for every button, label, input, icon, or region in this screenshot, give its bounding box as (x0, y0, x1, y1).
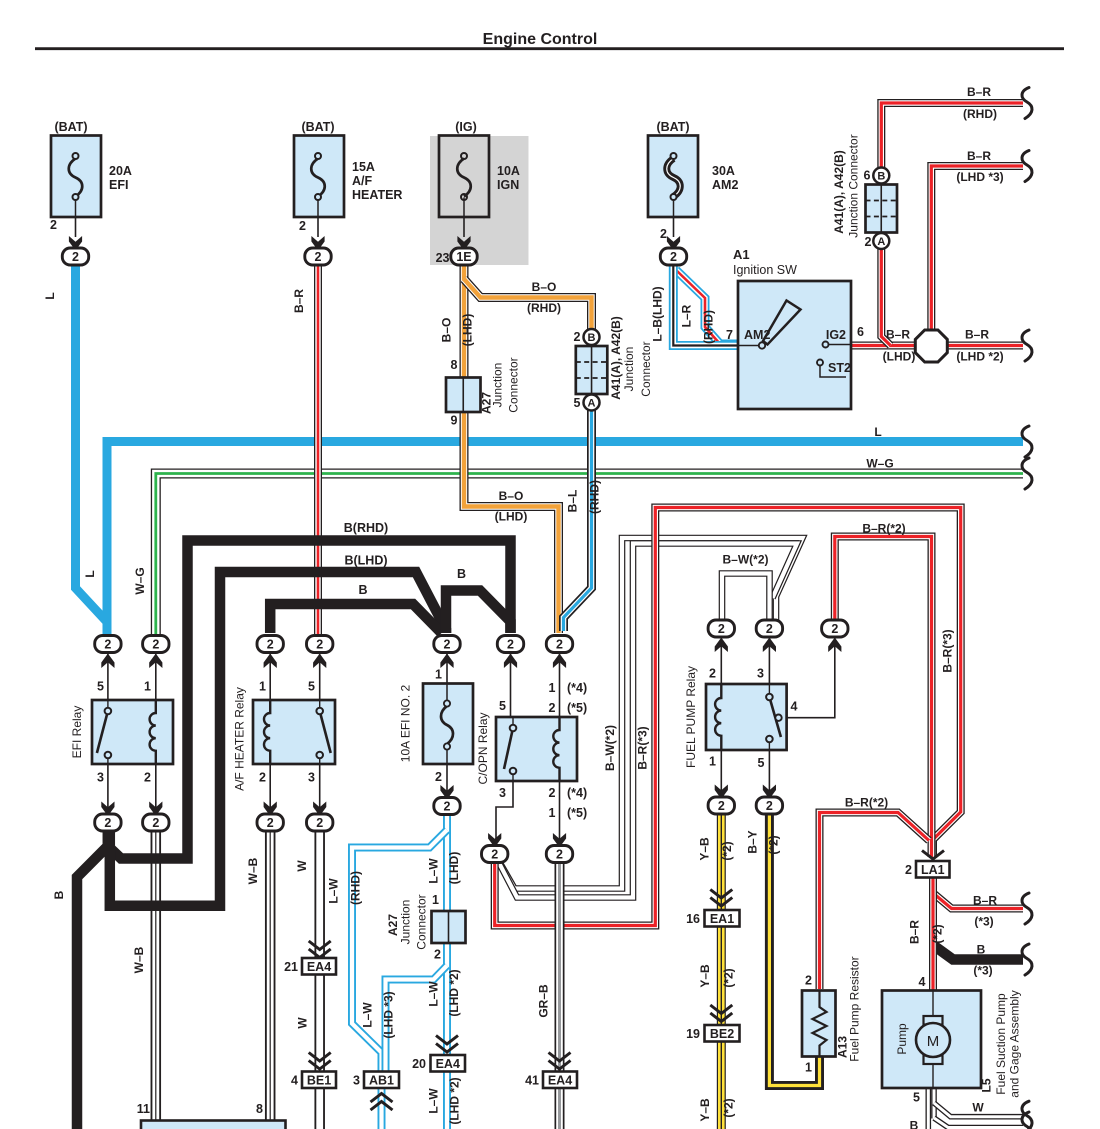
svg-text:2: 2 (152, 816, 159, 830)
svg-text:B: B (877, 171, 885, 183)
connector box EA4 pin20 (436, 1036, 458, 1045)
svg-text:2: 2 (315, 250, 322, 264)
svg-text:(LHD): (LHD) (461, 314, 475, 347)
svg-text:HEATER: HEATER (352, 188, 402, 202)
svg-text:2: 2 (831, 622, 838, 636)
svg-text:Fuel Suction Pump: Fuel Suction Pump (994, 993, 1008, 1095)
svg-text:(*2): (*2) (720, 841, 734, 860)
svg-text:GR–B: GR–B (537, 984, 551, 1018)
wire bottom partial to right break (934, 1118, 1023, 1128)
wire B-W(*2) white link loop between fuel pump relay pins 2 and 3 (722, 574, 770, 635)
svg-text:EA4: EA4 (436, 1057, 460, 1071)
svg-text:6: 6 (864, 169, 871, 183)
svg-text:B–R: B–R (292, 289, 306, 313)
svg-text:2: 2 (299, 219, 306, 233)
svg-text:2: 2 (556, 637, 563, 651)
svg-text:(RHD): (RHD) (588, 480, 602, 514)
svg-text:EFI Relay: EFI Relay (70, 706, 84, 759)
svg-text:2: 2 (491, 847, 498, 861)
wire B-R(*2) red branch from LA1 merge down-left to fuel pump resistor pin2 (820, 813, 930, 990)
svg-text:2: 2 (104, 816, 111, 830)
svg-text:2: 2 (104, 637, 111, 651)
pin line C/OPN relay pin3 jog (496, 781, 513, 840)
wire L-W (RHD) branch down to AB1 (352, 830, 447, 1071)
svg-text:W–B: W–B (246, 857, 260, 884)
wire B-L (RHD) from junction connector A down to C/OPN coil (564, 409, 592, 631)
svg-text:2: 2 (507, 637, 514, 651)
svg-text:B–R(*2): B–R(*2) (862, 522, 905, 536)
svg-text:B–L: B–L (566, 490, 580, 513)
fuse 10A EFI NO.2 box (423, 684, 473, 765)
svg-text:Y–B: Y–B (698, 837, 712, 861)
svg-text:BE2: BE2 (710, 1027, 734, 1041)
svg-text:4: 4 (291, 1073, 298, 1087)
svg-text:1: 1 (549, 806, 556, 820)
pin lines fuel pump relay bottom (720, 750, 722, 791)
svg-text:(LHD *3): (LHD *3) (956, 170, 1003, 184)
svg-text:2: 2 (718, 799, 725, 813)
svg-text:2: 2 (259, 771, 266, 785)
wire B-R(*3) red: C/OPN pin3 loop over to LA1 (495, 508, 961, 926)
svg-text:L5: L5 (980, 1078, 994, 1092)
fuel pump resistor A13 box (802, 991, 836, 1057)
svg-text:L–W: L–W (427, 1088, 441, 1114)
svg-text:7: 7 (726, 328, 733, 342)
wire B-O (LHD) from 1E fuse output down, across to C/OPN coil (464, 262, 559, 633)
svg-text:Ignition SW: Ignition SW (733, 263, 797, 277)
svg-text:(LHD *2): (LHD *2) (447, 969, 461, 1016)
svg-text:41: 41 (525, 1073, 539, 1087)
svg-text:2: 2 (556, 847, 563, 861)
svg-text:(LHD *3): (LHD *3) (382, 991, 396, 1038)
svg-text:B: B (52, 890, 66, 899)
bottom left connector box (141, 1121, 286, 1129)
svg-text:A: A (588, 398, 596, 410)
wire B-R from fuse 15A A/F HEATER down to A/F relay row (314, 262, 322, 634)
svg-text:(RHD): (RHD) (963, 107, 997, 121)
svg-text:Y–B: Y–B (698, 964, 712, 988)
svg-text:2: 2 (549, 701, 556, 715)
connector box EA4 pin41 (549, 1053, 571, 1062)
C/OPN Relay box (496, 717, 577, 781)
svg-text:10A: 10A (497, 164, 520, 178)
svg-text:9: 9 (451, 414, 458, 428)
svg-text:(RHD): (RHD) (702, 310, 716, 344)
wire B-R (RHD) up from junction connector B to top right break (881, 103, 1023, 168)
wire Y-B from fuel pump relay pin1 down through EA1/BE2 (717, 811, 726, 1129)
wire B thick black to bottom left (ground) (77, 828, 108, 1129)
svg-text:Fuel Pump Resistor: Fuel Pump Resistor (848, 956, 862, 1061)
svg-text:1: 1 (435, 668, 442, 682)
svg-text:BE1: BE1 (307, 1073, 331, 1087)
svg-text:2: 2 (267, 816, 274, 830)
svg-text:and Gage Assembly: and Gage Assembly (1008, 990, 1022, 1097)
svg-text:(RHD): (RHD) (349, 871, 363, 905)
svg-text:5: 5 (499, 699, 506, 713)
svg-text:3: 3 (353, 1073, 360, 1087)
junction connector A27 lower (432, 911, 466, 943)
svg-text:(*2): (*2) (722, 968, 736, 987)
svg-text:L–W: L–W (327, 878, 341, 904)
FUEL PUMP Relay box (706, 684, 787, 750)
svg-text:20A: 20A (109, 164, 132, 178)
svg-text:1: 1 (259, 680, 266, 694)
wire B-R ignition SW IG2 pin6 to octagon junction (851, 342, 931, 350)
octagon junction (915, 330, 947, 362)
svg-text:Y–B: Y–B (698, 1098, 712, 1122)
svg-text:L: L (83, 570, 97, 577)
svg-text:B: B (977, 943, 986, 957)
svg-text:Connector: Connector (507, 357, 521, 412)
svg-text:4: 4 (791, 700, 798, 714)
wire B-O (RHD) branch to junction connector B (464, 279, 592, 330)
ignition switch ST2 contact (817, 360, 823, 366)
svg-text:2: 2 (660, 227, 667, 241)
svg-text:2: 2 (718, 622, 725, 636)
svg-text:L–W: L–W (427, 858, 441, 884)
pin line fuel pump relay pin4 to B-R(*2) (787, 638, 835, 718)
A/F HEATER Relay box (253, 700, 335, 764)
pin lines relay row top (into ellipses y644) (107, 653, 109, 700)
svg-text:B–O: B–O (532, 280, 557, 294)
svg-text:B–O: B–O (499, 489, 524, 503)
svg-text:L–W: L–W (361, 1002, 375, 1028)
wire W branch from fuel pump bottom to right break (934, 1103, 1023, 1117)
svg-text:B: B (588, 332, 596, 344)
svg-text:16: 16 (686, 912, 700, 926)
connector box EA1 pin16 (710, 890, 732, 899)
svg-text:1E: 1E (456, 250, 471, 264)
wire B-R(*2) red: fuel pump relay pin4 loop to LA1 (835, 537, 932, 858)
wire B-R(*2) from LA1 down into fuel pump (929, 877, 937, 992)
svg-text:EA4: EA4 (548, 1073, 572, 1087)
wire B-Y from fuel pump relay pin5 to fuel pump resistor pin1 (769, 811, 819, 1086)
svg-text:B–W(*2): B–W(*2) (603, 725, 617, 771)
svg-text:2: 2 (316, 816, 323, 830)
wire GR-B from C/OPN coil down to EA4 pin41 and bottom (555, 858, 565, 1129)
svg-text:3: 3 (499, 786, 506, 800)
wire W white pair below fuel pump L5 (925, 1088, 931, 1129)
svg-text:(*2): (*2) (722, 1098, 736, 1117)
svg-text:1: 1 (432, 893, 439, 907)
svg-text:8: 8 (451, 358, 458, 372)
svg-text:A: A (877, 236, 885, 248)
svg-text:L–R: L–R (680, 304, 694, 327)
svg-text:(*4): (*4) (567, 681, 587, 695)
svg-text:5: 5 (97, 680, 104, 694)
svg-text:5: 5 (308, 680, 315, 694)
svg-text:W–B: W–B (132, 946, 146, 973)
svg-text:EA1: EA1 (710, 912, 734, 926)
svg-text:A41(A), A42(B): A41(A), A42(B) (609, 316, 623, 400)
wire W-B from A/F relay pin2 down to bottom connector pin 8 (265, 828, 276, 1121)
svg-text:B–R: B–R (967, 149, 991, 163)
relay row connector ellipses y=644 with arrows (101, 654, 114, 669)
wire L-W (LHD *3) branch below A27 to AB1 (386, 966, 448, 1072)
svg-text:2: 2 (574, 330, 581, 344)
svg-text:B(LHD): B(LHD) (344, 554, 387, 568)
wire B thick black: n-link between EFI NO.2 and C/OPN pin5 (446, 591, 511, 634)
svg-text:A/F HEATER Relay: A/F HEATER Relay (233, 687, 247, 791)
fuse 30A AM2 (648, 136, 698, 218)
svg-text:2: 2 (865, 235, 872, 249)
svg-text:L: L (874, 425, 881, 439)
svg-text:W: W (295, 860, 309, 872)
connector ellipses below fuses (62, 248, 88, 265)
pin lines from fuses to connectors (75, 217, 77, 237)
wire B-R(*3) branch right break (933, 893, 1023, 909)
svg-text:2: 2 (72, 250, 79, 264)
wire B-R (LHD *2) octagon to right break (931, 342, 1023, 350)
svg-text:A1: A1 (733, 247, 750, 262)
svg-text:5: 5 (574, 396, 581, 410)
svg-text:L: L (43, 292, 57, 299)
svg-text:Pump: Pump (895, 1023, 909, 1055)
svg-text:6: 6 (857, 325, 864, 339)
fuel suction pump L5 box with motor (882, 991, 981, 1089)
svg-text:1: 1 (144, 680, 151, 694)
svg-text:Connector: Connector (639, 341, 653, 396)
svg-text:4: 4 (919, 975, 926, 989)
svg-text:(*5): (*5) (567, 806, 587, 820)
svg-text:M: M (927, 1033, 940, 1050)
svg-text:11: 11 (137, 1102, 150, 1116)
svg-text:W: W (296, 1017, 310, 1029)
svg-text:Junction Connector: Junction Connector (847, 134, 861, 237)
svg-text:2: 2 (670, 250, 677, 264)
svg-text:(*4): (*4) (567, 786, 587, 800)
svg-text:LA1: LA1 (921, 863, 945, 877)
svg-text:(LHD): (LHD) (883, 350, 916, 364)
svg-text:2: 2 (434, 948, 441, 962)
svg-text:(BAT): (BAT) (656, 120, 689, 134)
svg-text:10A EFI NO. 2: 10A EFI NO. 2 (399, 684, 413, 762)
pin lines fuel pump relay top (720, 638, 722, 684)
svg-text:(LHD): (LHD) (447, 852, 461, 885)
connector box BE2 pin19 (710, 1005, 732, 1014)
svg-text:B–W(*2): B–W(*2) (722, 553, 768, 567)
svg-text:IG2: IG2 (826, 328, 846, 342)
svg-text:B–R(*3): B–R(*3) (941, 629, 955, 672)
svg-text:2: 2 (709, 667, 716, 681)
svg-text:(*3): (*3) (973, 964, 992, 978)
svg-text:2: 2 (549, 786, 556, 800)
wire W from A/F relay pin3 down through EA4/BE1 (314, 828, 325, 1129)
wire L (blue) from fuse 20A EFI down-left vertical with jog (76, 262, 108, 632)
svg-text:Engine Control: Engine Control (483, 31, 598, 48)
svg-text:Junction: Junction (622, 347, 636, 392)
svg-text:(*5): (*5) (567, 701, 587, 715)
svg-text:B–R: B–R (908, 920, 922, 944)
junction connector A27 upper (pins 8/9) (446, 378, 481, 413)
svg-text:15A: 15A (352, 160, 375, 174)
svg-text:21: 21 (284, 960, 298, 974)
wire B(*3) thick black branch right break (933, 945, 1023, 960)
svg-text:1: 1 (709, 755, 716, 769)
pin lines relay row bottom (107, 764, 109, 808)
wire break symbols at right edge (1022, 88, 1032, 119)
ignition switch A1 box (738, 281, 851, 409)
svg-text:2: 2 (444, 799, 451, 813)
wire W-B from EFI relay pin2 down to bottom connector pin 11 (151, 828, 162, 1121)
svg-text:5: 5 (758, 756, 765, 770)
svg-text:B–R: B–R (886, 328, 910, 342)
C/OPN bottom ellipses y=854 (488, 833, 501, 848)
svg-text:23: 23 (436, 251, 450, 265)
svg-text:19: 19 (686, 1027, 700, 1041)
svg-text:B(RHD): B(RHD) (344, 521, 388, 535)
wire B-R below junction connector A joining IG2 wire (881, 248, 890, 346)
connector box LA1 pin2 (922, 851, 944, 860)
svg-text:ST2: ST2 (828, 361, 851, 375)
wire L-W (LHD) main blue from EFI NO.2 fuse down through A27 to EA4 pin20 (443, 812, 451, 1129)
svg-text:AM2: AM2 (712, 178, 738, 192)
svg-text:A/F: A/F (352, 174, 373, 188)
svg-text:2: 2 (316, 637, 323, 651)
svg-text:Junction: Junction (491, 363, 505, 408)
svg-text:(*2): (*2) (931, 924, 945, 943)
svg-text:2: 2 (905, 863, 912, 877)
svg-text:2: 2 (267, 637, 274, 651)
svg-text:30A: 30A (712, 164, 735, 178)
svg-text:B: B (358, 583, 367, 597)
wire W-G horizontal bus + drop to EFI relay coil (156, 474, 1023, 635)
svg-text:AB1: AB1 (369, 1073, 394, 1087)
ignition switch AM2 contact and lever (738, 345, 762, 347)
wire L-W below AB1 to bottom (378, 1088, 386, 1129)
svg-text:FUEL PUMP Relay: FUEL PUMP Relay (684, 666, 698, 768)
wire B-W(*2) white inner run (498, 544, 798, 898)
svg-text:B–Y: B–Y (746, 830, 760, 853)
svg-text:20: 20 (412, 1057, 426, 1071)
junction connector A41(A) A42(B) left (pins 2/5) (584, 329, 600, 345)
svg-text:B–R(*3): B–R(*3) (636, 726, 650, 769)
svg-text:5: 5 (913, 1091, 920, 1105)
svg-text:B–O: B–O (440, 318, 454, 343)
svg-text:2: 2 (766, 799, 773, 813)
pin line C/OPN relay coil bottom (559, 781, 561, 840)
svg-text:2: 2 (766, 622, 773, 636)
svg-text:(LHD *2): (LHD *2) (448, 1077, 462, 1124)
svg-text:2: 2 (144, 771, 151, 785)
svg-text:3: 3 (757, 667, 764, 681)
svg-text:(IG): (IG) (455, 120, 477, 134)
wire B(LHD) thick black: EFI relay pin3 down-loop to EFI NO.2 fuse (110, 572, 446, 906)
svg-text:(LHD): (LHD) (495, 510, 528, 524)
svg-text:Connector: Connector (415, 894, 429, 949)
svg-text:Junction: Junction (399, 900, 413, 945)
svg-text:L–W: L–W (427, 981, 441, 1007)
gray background panel behind 10A IGN fuse (430, 136, 529, 265)
fuel pump relay top ellipses y=628.5 with arrows (715, 638, 728, 653)
wire B-W(*2) white: C/OPN pin3 to fuel pump relay pin3 (outer run) (496, 538, 803, 889)
svg-text:(RHD): (RHD) (527, 301, 561, 315)
svg-text:W–G: W–G (866, 457, 893, 471)
wire B-R (LHD *3) from octagon up to right break (931, 166, 1023, 332)
svg-text:2: 2 (152, 637, 159, 651)
svg-text:A41(A), A42(B): A41(A), A42(B) (832, 150, 846, 234)
svg-text:B–R: B–R (967, 85, 991, 99)
ignition switch IG2 contact (828, 344, 851, 346)
svg-text:3: 3 (97, 771, 104, 785)
fuse 10A IGN (439, 136, 489, 218)
svg-text:B–R(*2): B–R(*2) (845, 796, 888, 810)
svg-text:2: 2 (435, 770, 442, 784)
pin line EFI NO.2 fuse bottom (446, 764, 448, 791)
connector box AB1 pin3 (364, 1072, 399, 1089)
EFI Relay box (92, 700, 173, 764)
svg-text:2: 2 (805, 974, 812, 988)
svg-text:1: 1 (549, 681, 556, 695)
svg-text:IGN: IGN (497, 178, 519, 192)
relay bottom ellipses y=822.5 with arrows (101, 802, 114, 817)
fuse 20A EFI (51, 136, 101, 218)
svg-text:2: 2 (50, 218, 57, 232)
svg-text:(LHD *2): (LHD *2) (956, 350, 1003, 364)
fuse 15A A/F HEATER (294, 136, 344, 218)
wire L (blue) horizontal bus to right break + drop to EFI relay (107, 442, 1023, 635)
wire L-R from 30A AM2 output to ignition switch AM2 (RHD) (676, 270, 738, 344)
svg-text:W–G: W–G (133, 567, 147, 594)
svg-text:B: B (910, 1119, 919, 1129)
svg-text:(BAT): (BAT) (54, 120, 87, 134)
connector box BE1 pin4 (309, 1053, 331, 1062)
svg-text:3: 3 (308, 771, 315, 785)
svg-text:AM2: AM2 (744, 328, 770, 342)
svg-text:2: 2 (444, 637, 451, 651)
svg-text:(*2): (*2) (767, 835, 781, 854)
svg-text:B–R: B–R (965, 328, 989, 342)
svg-text:B: B (457, 567, 466, 581)
junction connector A41(A) A42(B) right (pins 6/2) (873, 168, 889, 184)
svg-text:8: 8 (256, 1102, 263, 1116)
connector box EA4 pin21 (309, 941, 331, 950)
svg-text:(*3): (*3) (974, 915, 993, 929)
arrows below fuses (69, 236, 82, 251)
svg-text:EFI: EFI (109, 178, 128, 192)
wire L-B(LHD) from 30A AM2 output to ignition switch AM2 (673, 262, 738, 346)
svg-text:B–R: B–R (973, 894, 997, 908)
svg-text:1: 1 (805, 1061, 812, 1075)
EFI NO.2 bottom ellipse y=806 (440, 785, 453, 800)
svg-text:EA4: EA4 (307, 960, 331, 974)
svg-text:L–B(LHD): L–B(LHD) (651, 286, 665, 341)
wire B thick black: A/F relay coil pin1 branch (270, 604, 441, 633)
svg-text:(BAT): (BAT) (301, 120, 334, 134)
svg-text:W: W (972, 1101, 984, 1115)
wire B(RHD) thick black: EFI relay pin3 loop up to C/OPN relay pin5 (108, 541, 511, 859)
svg-text:C/OPN Relay: C/OPN Relay (476, 712, 490, 784)
fuel pump relay bottom ellipses y=805.5 (715, 785, 728, 800)
